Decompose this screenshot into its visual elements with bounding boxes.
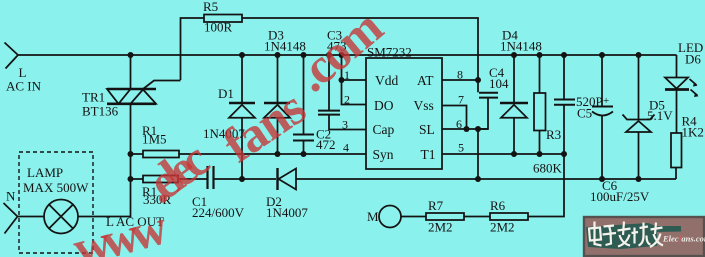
svg-text:6: 6: [456, 117, 462, 131]
svg-text:DO: DO: [374, 98, 394, 113]
svg-text:224/600V: 224/600V: [192, 205, 245, 220]
node D4-T1 junction: [511, 151, 517, 157]
svg-text:TR1: TR1: [82, 90, 105, 105]
svg-text:680K: 680K: [533, 161, 563, 176]
svg-text:Vss: Vss: [414, 98, 434, 113]
motor M: [379, 206, 401, 228]
IC U1 SM7232 body: [366, 58, 442, 169]
svg-text:N: N: [6, 189, 16, 204]
wire triac to AC OUT corner: [78, 104, 131, 217]
logo char 电: [589, 222, 602, 246]
capacitor C5: [554, 55, 575, 154]
wire to R1 1M5: [131, 153, 144, 155]
connector N: [4, 203, 18, 234]
svg-text:1M5: 1M5: [142, 132, 167, 147]
svg-text:7: 7: [458, 93, 464, 107]
node rail-triac junction: [128, 52, 134, 58]
node C4-pin6 junction: [475, 126, 481, 132]
wire R7 to R6: [464, 216, 490, 218]
svg-text:100uF/25V: 100uF/25V: [590, 189, 650, 204]
node bottom net junction: [475, 176, 481, 182]
svg-text:472: 472: [316, 137, 336, 152]
connector L AC IN: [5, 43, 19, 69]
node rail-C6 junction: [599, 52, 605, 58]
wire 330R to C1: [178, 178, 207, 180]
svg-text:3: 3: [342, 118, 348, 132]
svg-text:Syn: Syn: [373, 147, 394, 162]
wire D2 to right bottom net: [296, 178, 676, 180]
svg-text:C5: C5: [577, 106, 592, 121]
diode D2: [278, 168, 297, 190]
svg-text:MAX 500W: MAX 500W: [23, 180, 89, 195]
lamp: [44, 200, 78, 234]
resistor R6: [490, 213, 528, 220]
svg-text:R6: R6: [490, 198, 506, 213]
wire top AC rail: [18, 54, 677, 56]
wire T1 node down to motor branch: [528, 154, 564, 217]
wire R5 to pin8 riser: [242, 18, 478, 80]
wire rail to triac: [130, 55, 132, 89]
wire C1 to D2: [215, 178, 277, 180]
diode D3: [264, 55, 290, 154]
resistor R5: [204, 15, 242, 23]
svg-text:R7: R7: [428, 198, 444, 213]
svg-text:D1: D1: [218, 86, 234, 101]
svg-text:Elecfans.com: Elecfans.com: [662, 234, 705, 244]
svg-text:AC IN: AC IN: [6, 79, 42, 94]
node D3-Syn junction: [275, 151, 281, 157]
svg-text:100R: 100R: [204, 20, 233, 35]
wire R5 left riser: [181, 18, 205, 80]
node pin1 junction: [339, 77, 345, 83]
wire pin5 T1 line: [442, 153, 564, 155]
logo char 烧: [632, 223, 651, 246]
wire Vss down to bottom net: [477, 129, 479, 179]
capacitor C4: [478, 80, 498, 129]
svg-text:1K2: 1K2: [682, 125, 704, 140]
capacitor C3: [318, 55, 366, 130]
svg-text:AT: AT: [417, 73, 434, 88]
capacitor C2: [293, 55, 314, 154]
resistor R7: [426, 213, 464, 220]
wire motor to R7: [401, 216, 426, 218]
node rail-C5 junction: [561, 52, 567, 58]
logo char 子: [603, 226, 617, 246]
svg-text:4: 4: [343, 141, 349, 155]
resistor R3: [534, 55, 546, 154]
svg-text:M: M: [367, 209, 379, 224]
wire pin6 stub: [442, 128, 488, 130]
svg-text:D6: D6: [685, 52, 701, 67]
node rail-D4 junction: [511, 52, 517, 58]
node rail-C2 junction: [301, 52, 307, 58]
svg-text:1N4007: 1N4007: [266, 205, 308, 220]
node triac-1M5 junction: [128, 151, 134, 157]
wire rail to pin1/pin2: [342, 55, 367, 105]
resistor R1 1M5: [143, 151, 179, 158]
node rail-R3 junction: [537, 52, 543, 58]
svg-text:1N4148: 1N4148: [500, 39, 542, 54]
wire pin7 to pin6: [442, 106, 467, 130]
lamp box dashed: [19, 152, 93, 253]
resistor R1 330R: [143, 176, 178, 183]
wire Syn line: [179, 153, 366, 155]
node pin7-pin6 junction: [464, 126, 470, 132]
diode D1: [229, 55, 255, 179]
logo char 发: [618, 222, 631, 247]
node rail-C3 junction: [326, 52, 332, 58]
wire pin1 stub: [342, 79, 367, 81]
logo block elecfans: [583, 216, 705, 257]
node triac-330R junction: [128, 176, 134, 182]
node C5-T1 junction: [561, 151, 567, 157]
LED D6: [665, 55, 699, 133]
wire pin8 stub: [442, 79, 478, 81]
node C2-Syn junction: [301, 151, 307, 157]
svg-text:+: +: [603, 95, 609, 107]
svg-text:104: 104: [489, 76, 509, 91]
svg-text:BT136: BT136: [82, 104, 119, 119]
svg-text:5: 5: [458, 141, 464, 155]
capacitor C6 electrolytic: [592, 55, 613, 179]
wire N to lamp: [18, 216, 45, 218]
svg-text:R3: R3: [546, 127, 561, 142]
watermark www.elecfans.com: [67, 0, 392, 257]
svg-text:Vdd: Vdd: [375, 73, 398, 88]
wire to R1 330R: [131, 178, 144, 180]
node rail-D3 junction: [275, 52, 281, 58]
node rail junction for pin1: [339, 52, 345, 58]
zener D5: [623, 55, 655, 179]
svg-text:LAMP: LAMP: [27, 165, 63, 180]
diode D4: [500, 55, 528, 154]
node R3-T1 junction: [537, 151, 543, 157]
node pin8 junction: [475, 77, 481, 83]
node rail-D5 junction: [636, 52, 642, 58]
svg-text:SL: SL: [419, 122, 435, 137]
svg-text:2M2: 2M2: [428, 220, 453, 235]
node C6-bottom junction: [599, 176, 605, 182]
logo char 友: [650, 223, 663, 248]
svg-text:8: 8: [457, 68, 463, 82]
node D5-bottom junction: [636, 176, 642, 182]
svg-text:5.1V: 5.1V: [647, 108, 673, 123]
svg-text:T1: T1: [421, 147, 436, 162]
node rail-D1 junction: [239, 52, 245, 58]
svg-text:2: 2: [344, 93, 350, 107]
resistor R4: [671, 133, 682, 179]
triac TR1: [107, 81, 181, 104]
svg-text:R5: R5: [203, 0, 218, 14]
capacitor C1: [208, 166, 214, 189]
svg-text:2M2: 2M2: [490, 220, 515, 235]
node D1 bottom junction: [239, 176, 245, 182]
svg-text:Cap: Cap: [373, 122, 395, 137]
